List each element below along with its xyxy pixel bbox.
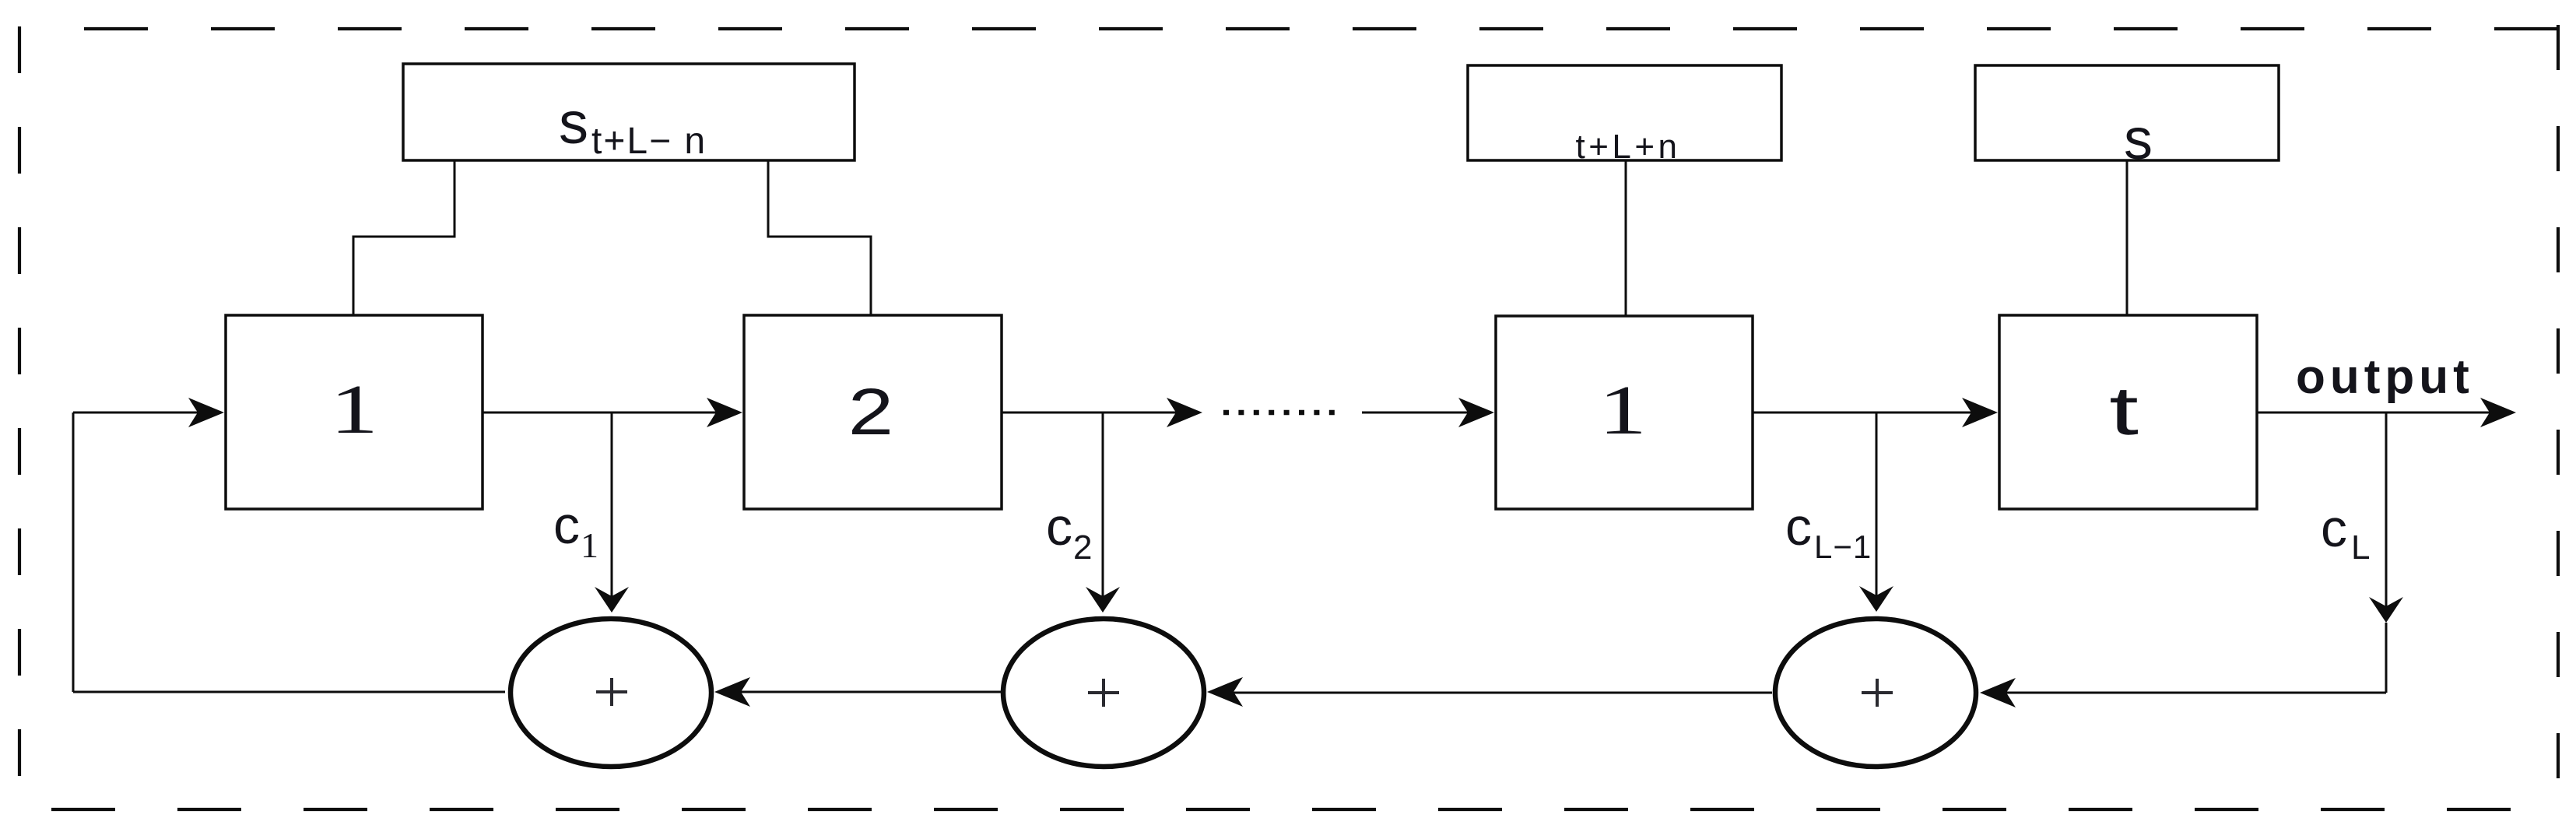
svg-text:2: 2 bbox=[1073, 528, 1092, 567]
svg-text:c: c bbox=[1046, 497, 1072, 556]
svg-text:s: s bbox=[559, 90, 588, 156]
svg-text:c: c bbox=[553, 496, 580, 555]
svg-text:t: t bbox=[2109, 373, 2139, 449]
svg-text:1: 1 bbox=[581, 525, 598, 565]
svg-text:1: 1 bbox=[330, 370, 378, 448]
svg-text:L−1: L−1 bbox=[1814, 528, 1872, 565]
svg-text:t+L+n: t+L+n bbox=[1575, 128, 1680, 166]
svg-text:c: c bbox=[1785, 497, 1812, 556]
svg-text:t+L− n: t+L− n bbox=[591, 121, 707, 162]
svg-text:1: 1 bbox=[1599, 371, 1647, 449]
svg-text:c: c bbox=[2321, 499, 2347, 558]
svg-text:L: L bbox=[2351, 528, 2370, 567]
svg-text:s: s bbox=[2124, 107, 2153, 171]
svg-text:2: 2 bbox=[848, 376, 893, 449]
svg-text:output: output bbox=[2296, 350, 2474, 404]
